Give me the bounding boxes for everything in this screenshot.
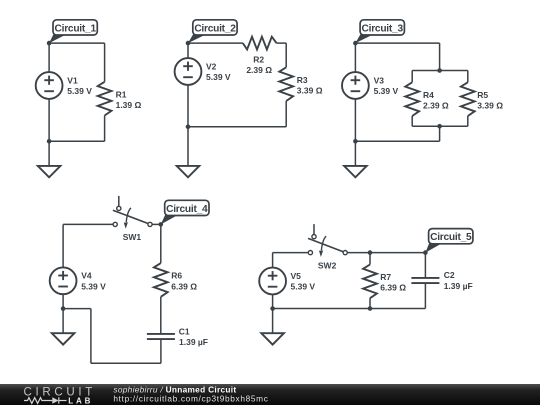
svg-text:Circuit_3: Circuit_3 — [362, 23, 404, 34]
svg-text:5.39 V: 5.39 V — [291, 282, 316, 292]
svg-text:Circuit_1: Circuit_1 — [55, 23, 97, 34]
svg-text:V4: V4 — [81, 271, 92, 281]
svg-text:R3: R3 — [297, 75, 308, 85]
svg-text:Circuit_4: Circuit_4 — [166, 204, 208, 215]
svg-text:5.39 V: 5.39 V — [374, 86, 399, 96]
svg-text:LAB: LAB — [68, 396, 91, 405]
svg-text:SW2: SW2 — [318, 260, 337, 270]
svg-text:V5: V5 — [291, 271, 302, 281]
svg-text:5.39 V: 5.39 V — [67, 86, 92, 96]
svg-text:R6: R6 — [171, 271, 182, 281]
svg-text:6.39 Ω: 6.39 Ω — [380, 283, 406, 293]
svg-text:R4: R4 — [423, 90, 434, 100]
svg-text:1.39 µF: 1.39 µF — [179, 337, 208, 347]
svg-text:2.39 Ω: 2.39 Ω — [423, 100, 449, 110]
svg-text:5.39 V: 5.39 V — [206, 72, 231, 82]
svg-text:R7: R7 — [380, 272, 391, 282]
svg-text:C1: C1 — [179, 326, 190, 336]
svg-text:V2: V2 — [206, 61, 217, 71]
svg-text:C2: C2 — [444, 270, 455, 280]
svg-text:Circuit_5: Circuit_5 — [430, 232, 472, 243]
svg-text:SW1: SW1 — [123, 232, 142, 242]
svg-text:http://circuitlab.com/cp3t9bbx: http://circuitlab.com/cp3t9bbxh85mc — [113, 394, 268, 404]
svg-text:5.39 V: 5.39 V — [81, 281, 106, 291]
svg-text:V1: V1 — [67, 75, 78, 85]
svg-text:1.39 Ω: 1.39 Ω — [116, 100, 142, 110]
svg-text:V3: V3 — [374, 75, 385, 85]
svg-text:3.39 Ω: 3.39 Ω — [477, 100, 503, 110]
svg-text:1.39 µF: 1.39 µF — [444, 281, 473, 291]
svg-text:3.39 Ω: 3.39 Ω — [297, 85, 323, 95]
svg-text:R5: R5 — [477, 90, 488, 100]
svg-text:Circuit_2: Circuit_2 — [194, 23, 236, 34]
svg-text:R1: R1 — [116, 89, 127, 99]
svg-text:R2: R2 — [253, 55, 264, 65]
svg-text:2.39 Ω: 2.39 Ω — [246, 65, 272, 75]
svg-text:6.39 Ω: 6.39 Ω — [171, 281, 197, 291]
